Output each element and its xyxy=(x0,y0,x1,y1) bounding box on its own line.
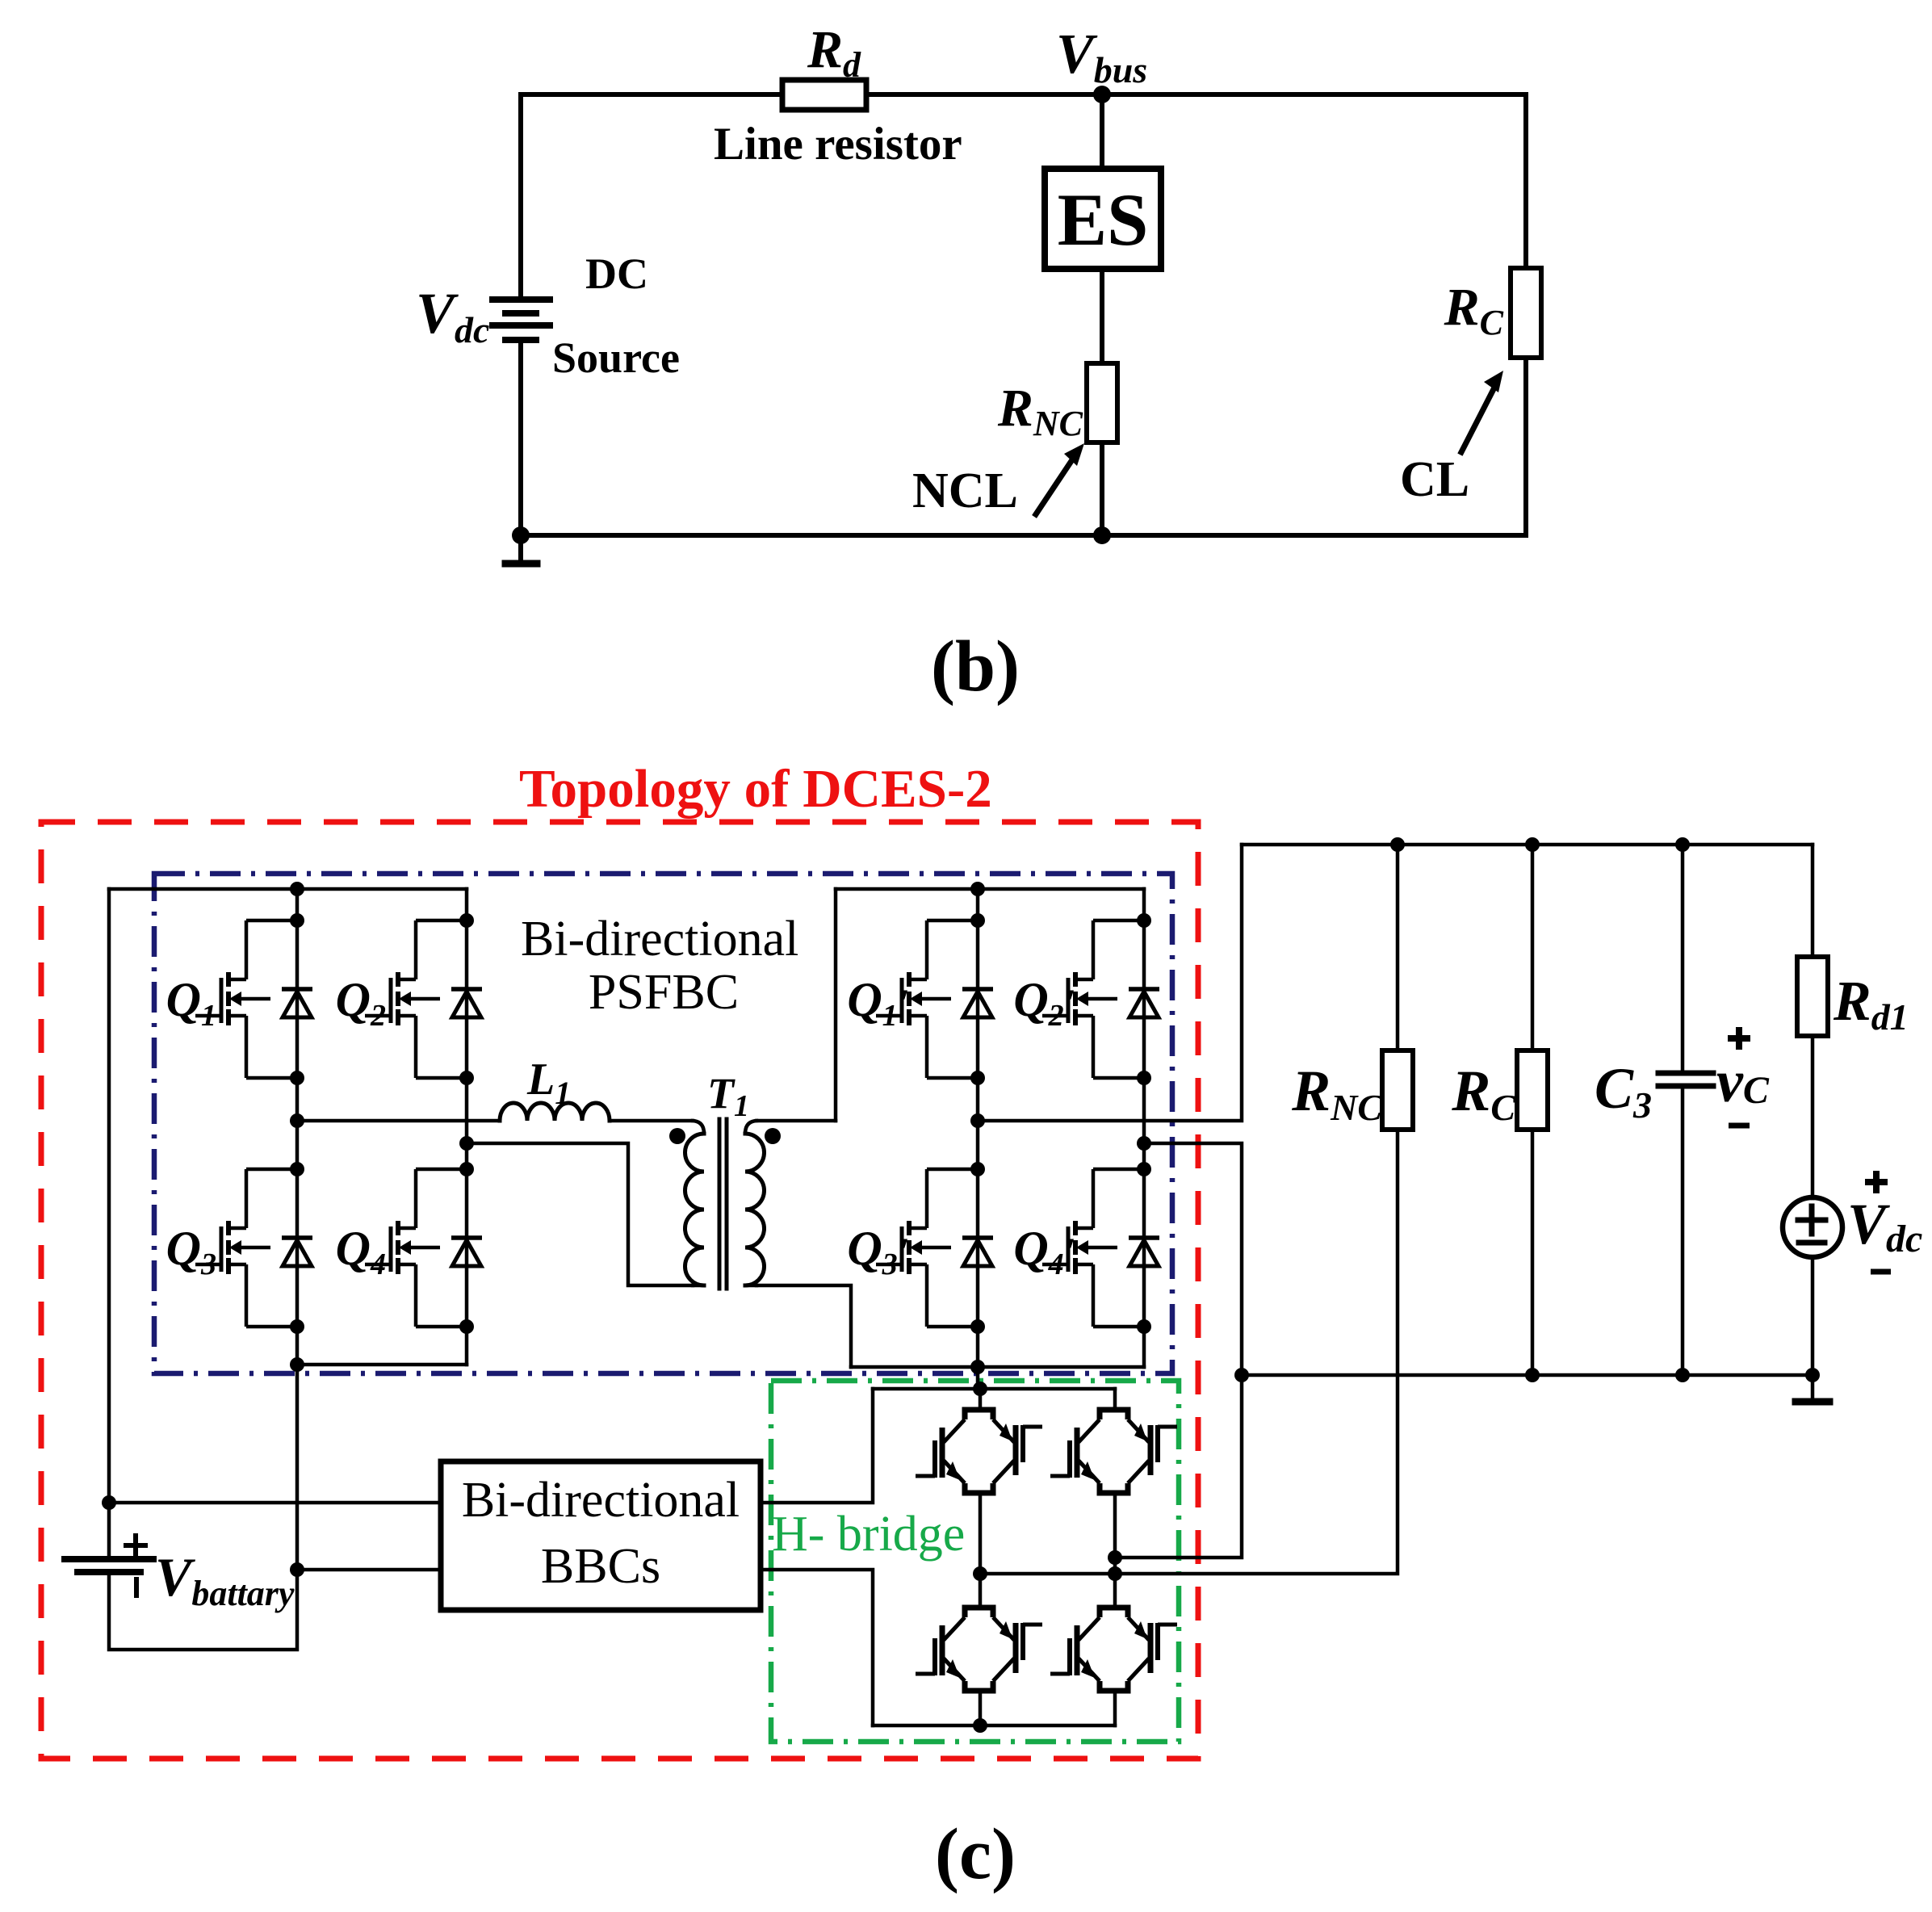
svg-text:C3: C3 xyxy=(1595,1056,1652,1126)
svg-text:(c): (c) xyxy=(935,1814,1016,1894)
svg-text:Q2: Q2 xyxy=(336,973,386,1033)
svg-text:Line resistor: Line resistor xyxy=(714,119,962,170)
svg-text:vC: vC xyxy=(1716,1049,1770,1115)
svg-text:Q2': Q2' xyxy=(1013,973,1075,1033)
svg-text:Bi-directional: Bi-directional xyxy=(462,1473,740,1528)
svg-text:(b): (b) xyxy=(931,627,1020,707)
svg-text:Q3': Q3' xyxy=(847,1222,908,1281)
svg-text:Topology of DCES-2: Topology of DCES-2 xyxy=(519,759,992,819)
svg-text:T1: T1 xyxy=(707,1069,749,1123)
svg-text:Vbattary: Vbattary xyxy=(155,1546,295,1613)
svg-text:CL: CL xyxy=(1400,452,1469,507)
svg-text:Q3: Q3 xyxy=(166,1222,216,1281)
svg-text:Rd: Rd xyxy=(807,20,861,85)
svg-text:Q4: Q4 xyxy=(336,1222,386,1281)
svg-text:Vbus: Vbus xyxy=(1056,23,1147,90)
svg-text:RNC: RNC xyxy=(997,379,1083,443)
svg-text:Vdc: Vdc xyxy=(1847,1192,1922,1260)
svg-text:H- bridge: H- bridge xyxy=(772,1507,965,1562)
svg-text:Vdc: Vdc xyxy=(416,281,489,350)
svg-text:Q1: Q1 xyxy=(166,973,216,1033)
svg-text:RC: RC xyxy=(1451,1059,1516,1128)
svg-text:Q1': Q1' xyxy=(847,973,908,1033)
svg-text:Bi-directional: Bi-directional xyxy=(521,912,798,966)
svg-text:L1: L1 xyxy=(526,1055,571,1111)
svg-text:Source: Source xyxy=(552,333,680,382)
svg-text:NCL: NCL xyxy=(912,463,1018,518)
svg-text:RC: RC xyxy=(1444,278,1504,342)
svg-text:BBCs: BBCs xyxy=(541,1539,660,1594)
svg-text:Q4': Q4' xyxy=(1013,1222,1075,1281)
svg-text:RNC: RNC xyxy=(1291,1059,1383,1128)
svg-text:ES: ES xyxy=(1058,178,1149,261)
svg-text:DC: DC xyxy=(585,249,648,298)
svg-text:PSFBC: PSFBC xyxy=(589,965,739,1020)
svg-text:Rd1: Rd1 xyxy=(1833,971,1909,1038)
